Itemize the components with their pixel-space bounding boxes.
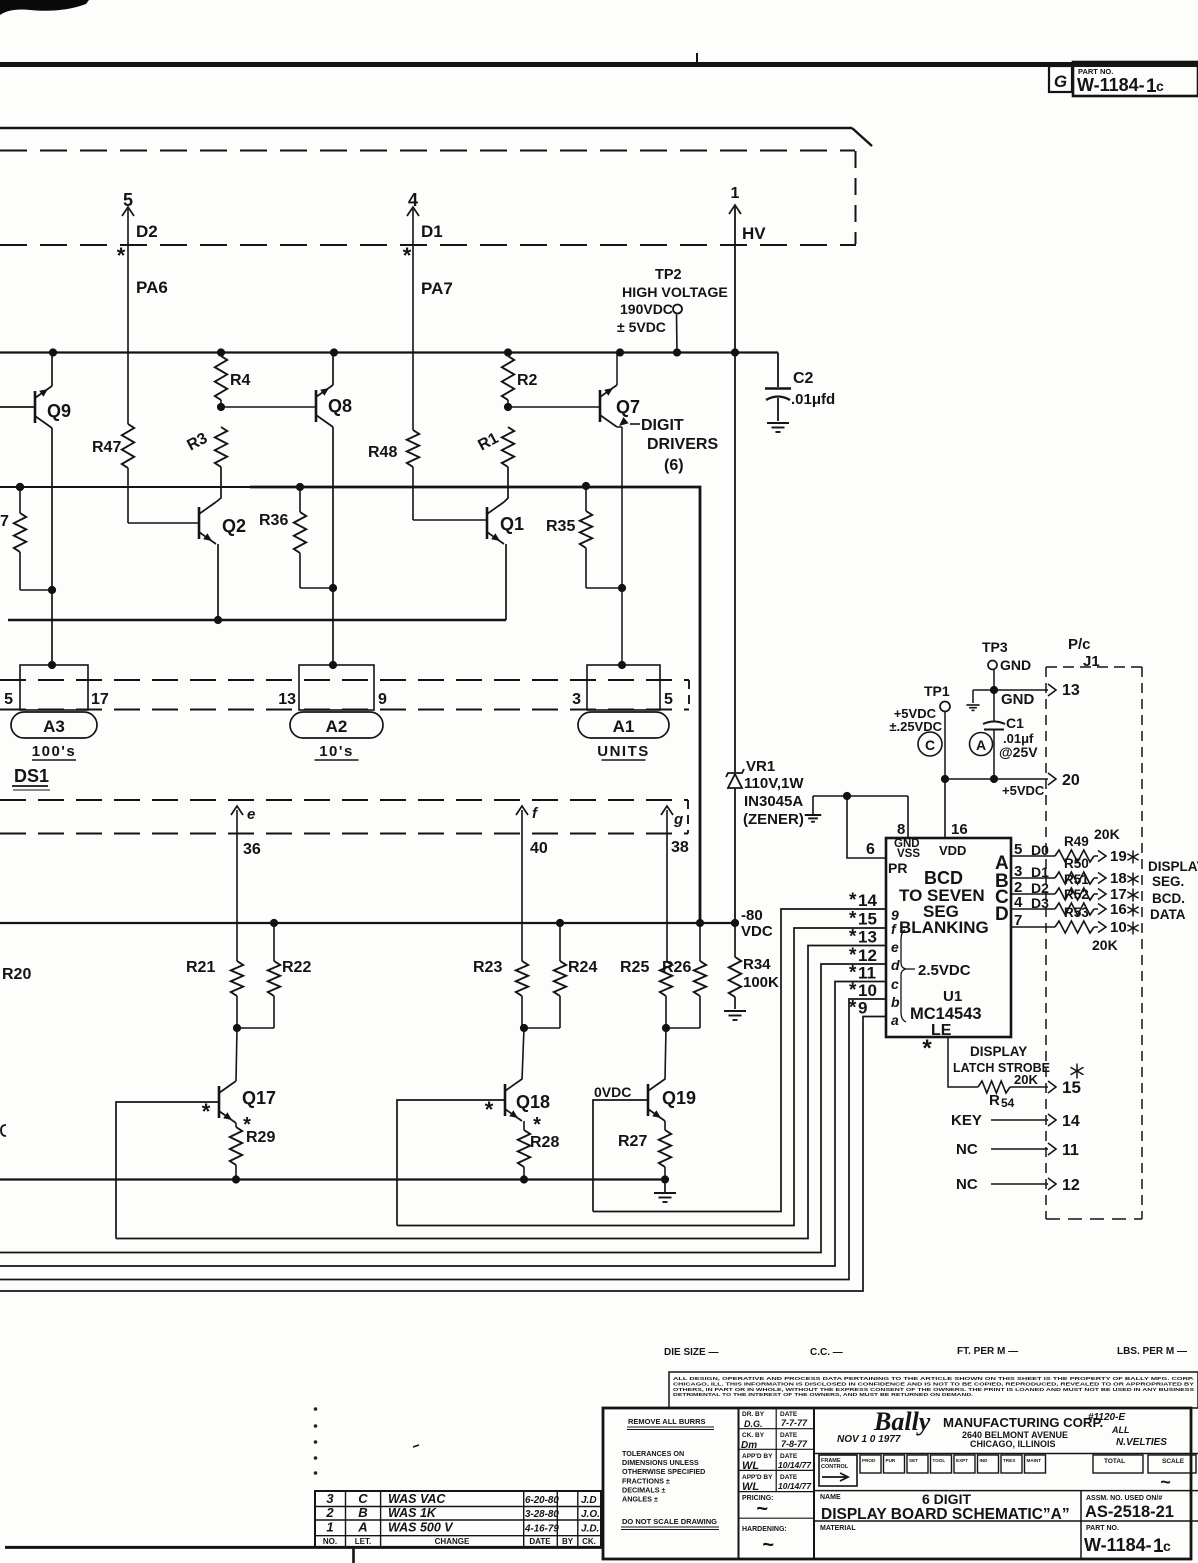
wire supply line y=487 with corner down to -80 rail <box>0 486 252 488</box>
svg-text:*: * <box>849 998 857 1019</box>
svg-text:PART NO.: PART NO. <box>1086 1525 1119 1532</box>
connector A3 100's digit <box>20 665 88 710</box>
svg-text:4-16-79: 4-16-79 <box>524 1524 559 1535</box>
svg-text:EXPT: EXPT <box>956 1458 968 1463</box>
svg-text:J.D.: J.D. <box>581 1524 599 1535</box>
svg-text:3: 3 <box>326 1491 334 1506</box>
dashed segment band upper line <box>0 799 688 801</box>
circled letter C <box>918 732 942 756</box>
node TP3/GND junction <box>990 686 998 694</box>
svg-text:U1: U1 <box>943 988 962 1005</box>
wire R35 bottom to Q7 emitter line <box>585 548 587 588</box>
wire GND row to J1 pin 13 <box>973 689 1048 691</box>
svg-text:TP2: TP2 <box>655 267 682 283</box>
resistor R28 <box>523 1121 525 1130</box>
transistor Q8 <box>315 390 318 422</box>
svg-text:J.O.: J.O. <box>581 1509 600 1520</box>
ground at pin6 net <box>812 796 814 814</box>
svg-text:APP'D BY: APP'D BY <box>742 1453 773 1460</box>
capacitor C2 .01ufd <box>777 353 779 388</box>
title block tolerances box <box>738 1408 740 1559</box>
svg-text:FRACTIONS ±: FRACTIONS ± <box>622 1476 670 1485</box>
svg-text:20: 20 <box>1062 772 1080 789</box>
svg-text:e: e <box>247 806 255 823</box>
node Q9 emitter / R37 junction <box>48 586 56 594</box>
svg-text:R26: R26 <box>662 959 691 976</box>
svg-text:REMOVE ALL BURRS: REMOVE ALL BURRS <box>628 1417 706 1426</box>
wire Q17 base loop <box>116 1102 219 1239</box>
wire Q1 emitter to 620 line <box>505 544 507 620</box>
svg-text:HARDENING:: HARDENING: <box>742 1526 787 1533</box>
wire U1 pin *12 (d) to left edge <box>0 964 886 1253</box>
wire Q18 collector slant <box>522 1028 524 1080</box>
svg-text:DIMENSIONS UNLESS: DIMENSIONS UNLESS <box>622 1458 699 1467</box>
svg-text:Bally: Bally <box>873 1407 931 1436</box>
resistor R24 <box>559 923 561 961</box>
svg-text:Dm: Dm <box>741 1440 757 1451</box>
revision letter box G <box>1049 66 1072 92</box>
resistor R26 <box>699 923 701 961</box>
svg-text:GND: GND <box>1000 657 1031 673</box>
U1 segment-pin bracket and 2.5VDC label <box>901 930 906 1022</box>
wire U1 pin *15 (f) to Q18 base <box>397 928 886 1226</box>
wire R27 to emitter bus <box>664 1167 666 1180</box>
svg-text:R29: R29 <box>246 1129 275 1146</box>
transistor Q7 digit driver <box>599 390 602 422</box>
svg-text:MAINT: MAINT <box>1027 1458 1042 1463</box>
svg-text:D: D <box>995 904 1009 925</box>
wire Q9 emitter down to connector A3 <box>51 428 53 663</box>
svg-text:g: g <box>673 811 683 828</box>
svg-text:9: 9 <box>858 999 867 1018</box>
node Q9 collector on bus <box>49 348 57 356</box>
svg-text:APP'D BY: APP'D BY <box>742 1474 773 1481</box>
scan artifact blob top-left <box>0 0 89 15</box>
svg-text:R49: R49 <box>1064 834 1089 849</box>
svg-text:R23: R23 <box>473 959 502 976</box>
svg-text:CHANGE: CHANGE <box>435 1537 470 1546</box>
svg-text:A1: A1 <box>613 717 635 736</box>
svg-text:AS-2518-21: AS-2518-21 <box>1085 1503 1174 1521</box>
resistor R37 (label cut at edge) <box>14 513 26 552</box>
transistor Q1 <box>486 507 489 539</box>
svg-text:19: 19 <box>1110 848 1127 865</box>
circled letter A <box>970 733 993 756</box>
node HV line on bus <box>731 348 739 356</box>
svg-text:40: 40 <box>530 840 548 857</box>
svg-text:PA6: PA6 <box>136 278 168 297</box>
node R4 top on bus <box>217 348 225 356</box>
svg-text:VSS: VSS <box>897 848 920 860</box>
resistor R29 <box>235 1123 237 1127</box>
svg-text:D2: D2 <box>1031 880 1049 896</box>
node R27 / ground on emitter bus <box>661 1175 669 1183</box>
svg-text:9: 9 <box>378 691 387 708</box>
svg-text:±.25VDC: ±.25VDC <box>889 719 942 734</box>
node C1/+5VDC junction <box>990 775 998 783</box>
svg-text:BY: BY <box>562 1537 574 1546</box>
dashed panel border lower <box>0 244 856 246</box>
svg-text:D3: D3 <box>1031 895 1049 911</box>
wire R36 bottom to Q8 emitter line <box>299 553 301 588</box>
node R2 top on bus <box>504 348 512 356</box>
svg-text:Q1: Q1 <box>500 514 524 534</box>
svg-text:~: ~ <box>762 1534 774 1556</box>
svg-text:10/14/77: 10/14/77 <box>778 1481 812 1491</box>
wire Q8 emitter down to connector A2 <box>332 427 334 663</box>
svg-text:190VDC: 190VDC <box>620 301 673 317</box>
resistor R49 BCD output <box>1011 855 1055 857</box>
svg-text:100's: 100's <box>32 743 76 760</box>
svg-text:(6): (6) <box>664 457 684 474</box>
node Q7 emitter / R35 junction <box>618 584 626 592</box>
svg-text:DIGIT: DIGIT <box>641 417 684 434</box>
svg-text:MC14543: MC14543 <box>910 1005 982 1023</box>
wire junction to pin 8 <box>847 795 908 797</box>
svg-text:3: 3 <box>1014 863 1022 880</box>
node R4 bottom / Q8 base wire <box>217 403 225 411</box>
node zener-ground junction <box>843 792 851 800</box>
svg-text:DS1: DS1 <box>14 766 49 786</box>
svg-text:D0: D0 <box>1031 842 1049 858</box>
wire TP3 to GND rail <box>993 670 995 690</box>
svg-text:7-8-77: 7-8-77 <box>781 1439 808 1449</box>
resistor R53 BCD output <box>1011 926 1055 928</box>
svg-text:18: 18 <box>1110 870 1127 887</box>
svg-text:*: * <box>922 1035 932 1062</box>
perforation dots column <box>314 1407 318 1411</box>
node R29 on emitter bus <box>232 1175 240 1183</box>
svg-text:CK. BY: CK. BY <box>742 1432 765 1439</box>
node R28 on emitter bus <box>520 1175 528 1183</box>
resistor R34 100K <box>734 923 736 957</box>
svg-text:Q18: Q18 <box>516 1092 550 1112</box>
node TP2 on bus <box>673 348 681 356</box>
svg-text:3: 3 <box>572 691 581 708</box>
connector A2 10's digit <box>299 665 374 710</box>
svg-text:DATA: DATA <box>1150 907 1186 922</box>
node R26 / supply corner on rail <box>696 919 704 927</box>
name row <box>814 1490 1198 1492</box>
svg-text:NOV 1 0 1977: NOV 1 0 1977 <box>837 1434 901 1445</box>
svg-text:12: 12 <box>858 946 877 965</box>
wire R28 to emitter bus <box>523 1167 525 1180</box>
wire R29 to emitter bus <box>235 1165 237 1180</box>
node Q8 emitter / R36 junction <box>329 584 337 592</box>
svg-text:CHICAGO, ILL. THIS INFORMATIO: CHICAGO, ILL. THIS INFORMATION IS DISCLO… <box>673 1381 1195 1387</box>
svg-text:R21: R21 <box>186 959 215 976</box>
svg-text:TOLERANCES ON: TOLERANCES ON <box>622 1449 684 1458</box>
wire U1 pin *10 (b) to left edge <box>0 999 886 1280</box>
resistor R21 <box>231 961 243 996</box>
svg-text:R35: R35 <box>546 518 575 535</box>
svg-text:b: b <box>891 994 900 1010</box>
svg-text:R22: R22 <box>282 959 311 976</box>
svg-text:5: 5 <box>664 691 673 708</box>
svg-text:38: 38 <box>671 839 689 856</box>
svg-text:R20: R20 <box>2 966 31 983</box>
svg-text:DRIVERS: DRIVERS <box>647 436 718 453</box>
svg-text:IN3045A: IN3045A <box>744 793 803 810</box>
svg-text:WL: WL <box>742 1460 759 1472</box>
svg-text:c: c <box>1156 78 1164 94</box>
resistor R27 <box>664 1121 666 1130</box>
stray mark <box>413 1445 419 1447</box>
svg-text:PROD: PROD <box>862 1458 876 1463</box>
wire Q17 collector slant <box>236 1028 237 1081</box>
svg-text:ALL: ALL <box>1111 1425 1130 1435</box>
svg-text:R2: R2 <box>517 372 538 389</box>
wire R37 top from 487 line <box>19 487 21 513</box>
svg-text:c: c <box>891 976 899 992</box>
wire HV vertical to -80VDC rail <box>734 207 736 772</box>
svg-text:d: d <box>891 957 900 973</box>
wire +5VDC row to J1 pin 20 <box>945 778 1048 780</box>
svg-text:SEG.: SEG. <box>1152 874 1184 889</box>
wire U1 pin *13 (e) to Q17 base <box>116 946 886 1239</box>
svg-text:ASSM. NO. USED ON/#: ASSM. NO. USED ON/# <box>1086 1495 1162 1502</box>
ground below R34 <box>724 1010 746 1012</box>
svg-text:ANGLES ±: ANGLES ± <box>622 1495 658 1504</box>
wire emitter line y=620 <box>8 619 506 622</box>
capacitor C1 .01uf @25V <box>993 690 995 721</box>
svg-text:R47: R47 <box>92 439 121 456</box>
wire Q9 collector to bus <box>51 353 53 387</box>
svg-text:CHICAGO, ILLINOIS: CHICAGO, ILLINOIS <box>970 1439 1056 1449</box>
resistor R48 <box>412 429 414 431</box>
svg-text:HV: HV <box>742 224 766 243</box>
wire Q9 base from left edge <box>0 406 35 408</box>
svg-text:Q2: Q2 <box>222 516 246 536</box>
svg-text:11: 11 <box>1062 1142 1079 1159</box>
svg-text:R27: R27 <box>618 1133 647 1150</box>
svg-text:7-7-77: 7-7-77 <box>781 1418 808 1428</box>
wire Q19 collector slant <box>665 1028 666 1080</box>
ground below emitter bus <box>664 1180 666 1193</box>
svg-text:W-1184-: W-1184- <box>1077 75 1145 95</box>
svg-text:FT. PER M —: FT. PER M — <box>957 1346 1018 1357</box>
svg-text:D.G.: D.G. <box>744 1419 763 1429</box>
wire Q1 collector <box>504 467 508 502</box>
wire R48 bottom to Q1 base <box>412 467 414 520</box>
svg-text:3-28-80: 3-28-80 <box>525 1509 559 1520</box>
part number box W-1184-1c <box>1073 62 1198 96</box>
svg-text:DECIMALS ±: DECIMALS ± <box>622 1485 666 1494</box>
wire 190VDC bus <box>0 351 778 353</box>
svg-text:DISPLAY: DISPLAY <box>970 1044 1027 1059</box>
segment f arrow pin 40 <box>516 806 528 815</box>
svg-text:4: 4 <box>1014 894 1023 911</box>
svg-text:BLANKING: BLANKING <box>899 918 989 937</box>
node R24 on rail <box>556 919 564 927</box>
svg-text:7: 7 <box>0 513 9 530</box>
wire emitter bus y=1179 <box>0 1178 665 1180</box>
svg-text:+5VDC: +5VDC <box>1002 783 1045 798</box>
wire R47 bottom to Q2 base <box>127 468 129 523</box>
svg-text:R24: R24 <box>568 959 597 976</box>
svg-text:@25V: @25V <box>999 744 1038 760</box>
dashed panel border upper <box>0 150 855 152</box>
svg-text:36: 36 <box>243 841 261 858</box>
svg-text:15: 15 <box>1062 1078 1081 1097</box>
svg-text:PR: PR <box>888 860 907 876</box>
svg-text:100K: 100K <box>743 974 779 991</box>
svg-text:54: 54 <box>1001 1096 1015 1110</box>
svg-text:ALL DESIGN, OPERATIVE AND PROC: ALL DESIGN, OPERATIVE AND PROCESS DATA P… <box>673 1376 1194 1382</box>
svg-text:TP1: TP1 <box>924 683 950 699</box>
svg-text:B: B <box>358 1505 367 1520</box>
svg-text:LE: LE <box>931 1022 952 1039</box>
U1 pin 16 wire and label <box>944 779 946 838</box>
svg-text:~: ~ <box>756 1498 768 1520</box>
ground below C2 <box>767 422 789 424</box>
svg-text:8: 8 <box>897 821 905 838</box>
svg-text:11: 11 <box>858 964 876 983</box>
title block signoff column <box>813 1408 815 1559</box>
material row <box>814 1520 1081 1522</box>
node R37 top <box>16 483 24 491</box>
resistor R22 <box>273 923 275 961</box>
svg-text:DIE SIZE —: DIE SIZE — <box>664 1347 718 1358</box>
svg-text:#1120-E: #1120-E <box>1088 1412 1125 1423</box>
svg-text:NC: NC <box>956 1176 978 1193</box>
wire U1 pin *9 (a) to left edge <box>0 1017 886 1292</box>
resistor R3 <box>215 427 227 467</box>
svg-text:.01μfd: .01μfd <box>791 391 835 408</box>
svg-text:DATE: DATE <box>529 1537 551 1546</box>
transistor Q2 <box>198 507 201 539</box>
dashed connector band lower line <box>0 709 689 711</box>
svg-text:D1: D1 <box>421 222 443 241</box>
svg-text:e: e <box>891 939 899 955</box>
wire Q8 base <box>221 406 316 408</box>
segment e arrow pin 36 <box>231 806 243 815</box>
svg-text:MATERIAL: MATERIAL <box>820 1525 856 1532</box>
svg-text:OTHERS, IN PART OR IN WHOLE, W: OTHERS, IN PART OR IN WHOLE, WITHOUT THE… <box>673 1387 1195 1393</box>
svg-text:13: 13 <box>858 928 877 947</box>
svg-text:c: c <box>1163 1538 1171 1554</box>
node TP1/+5VDC junction <box>941 775 949 783</box>
wire segment e down to R21 <box>236 810 238 961</box>
svg-text:P/c: P/c <box>1068 636 1091 653</box>
svg-text:7: 7 <box>1014 912 1022 929</box>
resistor R36 <box>296 483 304 491</box>
wire Q2 collector <box>216 467 221 502</box>
wire -80VDC rail <box>0 922 735 924</box>
wire Q7 collector to bus <box>616 353 618 386</box>
svg-text:NAME: NAME <box>820 1494 841 1501</box>
svg-text:BCD: BCD <box>924 868 963 888</box>
svg-text:WAS VAC: WAS VAC <box>388 1492 446 1506</box>
wire U1 pin *11 (c) to left edge <box>0 982 886 1267</box>
svg-text:R53: R53 <box>1064 905 1089 920</box>
svg-text:TP3: TP3 <box>982 639 1008 655</box>
svg-text:C2: C2 <box>793 370 814 387</box>
svg-text:~: ~ <box>1160 1472 1171 1492</box>
wire Q7 base <box>508 406 600 408</box>
svg-text:KEY: KEY <box>951 1112 982 1129</box>
svg-text:DATE: DATE <box>780 1474 798 1481</box>
U1 pin 8 wire and label <box>907 796 909 838</box>
svg-text:R36: R36 <box>259 512 288 529</box>
svg-text:BCD.: BCD. <box>1152 891 1185 906</box>
svg-text:Q8: Q8 <box>328 396 352 416</box>
svg-text:± 5VDC: ± 5VDC <box>617 319 666 335</box>
svg-text:D1: D1 <box>1031 864 1049 880</box>
resistor R4 <box>215 356 227 400</box>
svg-text:PA7: PA7 <box>421 279 453 298</box>
transistor Q9 <box>34 391 37 423</box>
svg-text:12: 12 <box>1062 1177 1080 1194</box>
svg-text:DR. BY: DR. BY <box>742 1411 765 1418</box>
svg-text:R51: R51 <box>1064 872 1089 887</box>
resistor R2 <box>502 356 514 400</box>
svg-text:N.VELTIES: N.VELTIES <box>1116 1437 1167 1448</box>
wire Q7 emitter down to connector A1 <box>617 426 622 428</box>
svg-text:16: 16 <box>951 821 968 838</box>
zener diode VR1 110V 1W IN3045A <box>728 774 742 788</box>
wire U1 LE pin to R54 <box>948 1037 978 1087</box>
svg-text:10: 10 <box>1110 919 1127 936</box>
svg-text:-80: -80 <box>741 907 763 924</box>
svg-text:R52: R52 <box>1064 887 1089 902</box>
dashed segment band right end <box>687 800 689 834</box>
frame bottom stub <box>352 1547 355 1563</box>
svg-text:VDC: VDC <box>741 923 773 940</box>
svg-text:IND: IND <box>980 1458 989 1463</box>
wire Q18 base loop <box>397 1100 505 1226</box>
svg-text:13: 13 <box>278 691 296 708</box>
svg-text:DETRIMENTAL TO THE INTEREST OF: DETRIMENTAL TO THE INTEREST OF THE OWNER… <box>673 1392 973 1398</box>
frame border top thick line <box>0 62 1198 67</box>
svg-text:SCALE: SCALE <box>1162 1458 1185 1465</box>
svg-text:C: C <box>358 1491 368 1506</box>
svg-text:R34: R34 <box>743 956 771 973</box>
svg-text:a: a <box>891 1012 899 1028</box>
small ground on GND row <box>972 690 974 703</box>
tick mark above border at x=697 <box>696 53 698 64</box>
svg-text:14: 14 <box>858 891 877 910</box>
svg-text:VDD: VDD <box>939 843 966 858</box>
svg-text:MANUFACTURING CORP.: MANUFACTURING CORP. <box>943 1415 1103 1430</box>
svg-text:6 DIGIT: 6 DIGIT <box>922 1491 971 1507</box>
svg-text:TOTAL: TOTAL <box>1104 1458 1125 1465</box>
node R22 on rail <box>270 919 278 927</box>
svg-text:Q17: Q17 <box>242 1088 276 1108</box>
wire TP1 down to +5VDC row <box>944 712 946 780</box>
svg-text:0VDC: 0VDC <box>594 1084 631 1100</box>
svg-text:TRES: TRES <box>1003 1458 1015 1463</box>
svg-text:NC: NC <box>956 1141 978 1158</box>
svg-text:NO.: NO. <box>323 1537 337 1546</box>
resistor R35 <box>582 482 590 490</box>
wire Q19 base loop <box>593 1100 648 1212</box>
svg-text:PUR: PUR <box>886 1458 896 1463</box>
svg-text:R25: R25 <box>620 959 649 976</box>
svg-text:OTHERWISE SPECIFIED: OTHERWISE SPECIFIED <box>622 1467 705 1476</box>
svg-text:TOOL: TOOL <box>933 1458 946 1463</box>
svg-text:*: * <box>117 243 126 268</box>
svg-text:17: 17 <box>91 691 109 708</box>
wire R21/R22 join <box>236 996 238 1028</box>
transistor Q17 <box>218 1086 221 1118</box>
svg-text:DATE: DATE <box>780 1411 798 1418</box>
resistor R50 BCD output <box>1011 877 1055 879</box>
svg-text:C: C <box>925 737 935 753</box>
title block approvals strip <box>814 1453 1198 1455</box>
svg-text:14: 14 <box>1062 1113 1080 1130</box>
svg-text:20K: 20K <box>1092 937 1118 953</box>
